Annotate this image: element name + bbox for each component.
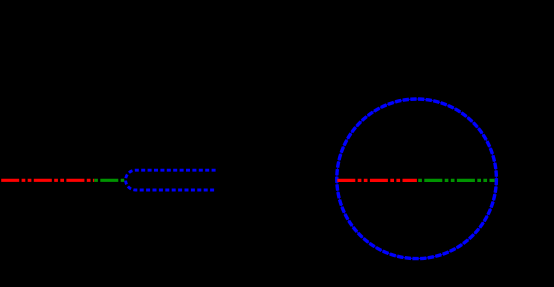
- diameter segment (red, right figure): [337, 179, 417, 182]
- branch cut segment (green, left figure): [94, 179, 124, 182]
- keyhole contour (blue, left figure): [126, 170, 216, 190]
- large contour circle underlay (blue, right figure): [337, 99, 497, 259]
- large contour circle (blue, right figure): [337, 99, 497, 259]
- diameter segment (green, right figure): [418, 179, 494, 182]
- branch cut segment (red, left figure): [1, 179, 94, 182]
